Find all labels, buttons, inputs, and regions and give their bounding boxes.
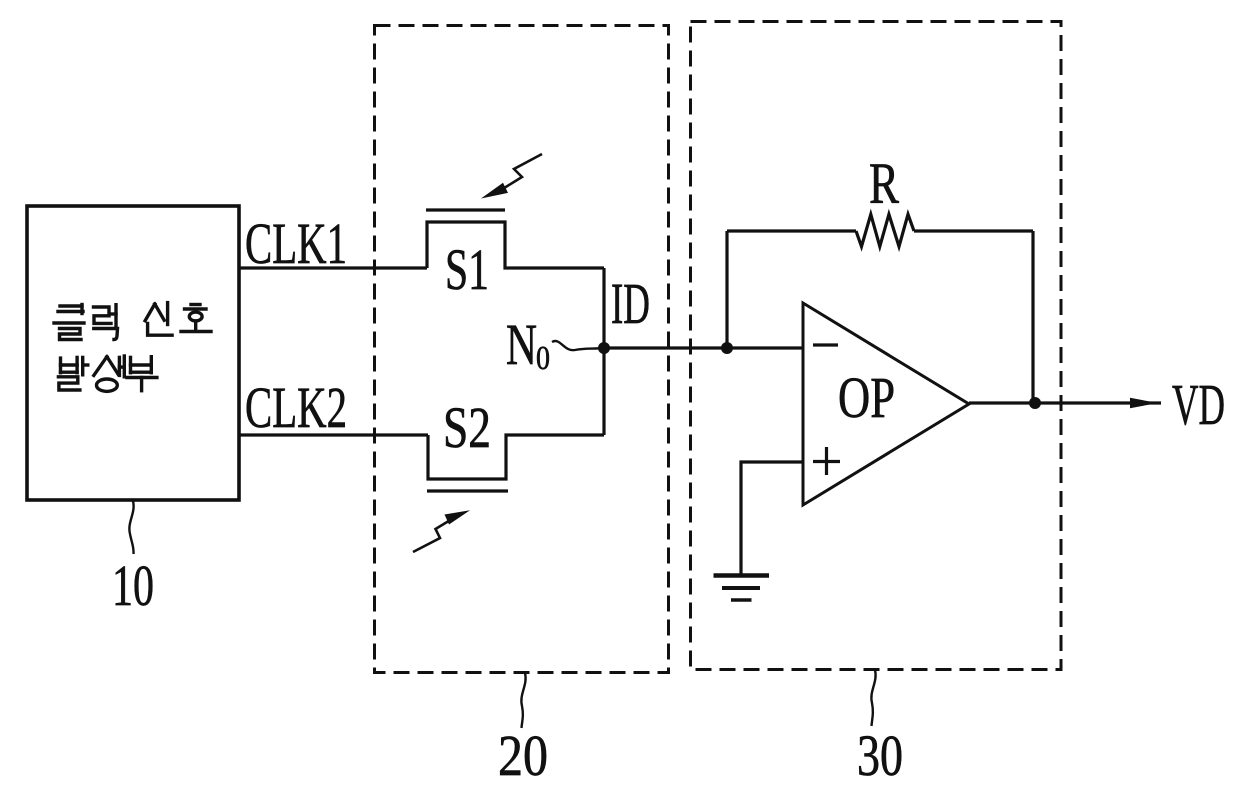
svg-text:S2: S2 [443, 395, 491, 460]
syllable 발 [59, 358, 62, 373]
svg-text:0: 0 [536, 340, 550, 377]
svg-text:R: R [869, 151, 899, 216]
leader squiggle 10 [129, 501, 133, 554]
label 클럭 신호 (line 1 of box text) [54, 303, 211, 340]
svg-text:N: N [506, 312, 537, 377]
syllable 부 [129, 357, 132, 372]
leader squiggle 30 [871, 670, 875, 726]
svg-text:30: 30 [857, 723, 903, 788]
svg-text:ID: ID [611, 271, 650, 336]
syllable 클 [60, 304, 82, 307]
svg-text:10: 10 [112, 553, 154, 618]
control arrow S1 (lightning bolt) [505, 154, 542, 188]
node N0 junction dot [598, 342, 610, 354]
syllable 신 [145, 304, 155, 321]
switch S1 gate bar [426, 208, 505, 211]
feedback tap node [721, 342, 733, 354]
minus sign inverting input [813, 343, 838, 346]
output arrowhead [1130, 398, 1158, 408]
leader squiggle N0 [552, 341, 602, 350]
wire CLK1 [239, 266, 427, 269]
svg-text:20: 20 [498, 723, 548, 788]
wire non-inverting input [741, 462, 803, 576]
svg-text:CLK1: CLK1 [245, 211, 347, 276]
switch S2 gate bar [427, 489, 508, 492]
wire node N0 to op-amp inverting input [604, 346, 803, 349]
svg-text:OP: OP [838, 365, 895, 430]
wire switch outputs junction vertical [602, 268, 605, 435]
svg-text:VD: VD [1172, 372, 1225, 437]
label 발생부 (line 2 of box text) [58, 356, 156, 391]
syllable 호 [191, 303, 200, 306]
feedback wire left vertical [725, 231, 728, 348]
switch S2 channel bump [428, 435, 604, 479]
control arrow S2 (lightning bolt) [413, 519, 452, 552]
syllable 럭 [94, 307, 112, 323]
op-amp OP triangle [803, 303, 969, 505]
ground symbol [714, 576, 770, 601]
wire CLK2 [239, 433, 428, 436]
feedback wire top horizontal [727, 229, 1033, 232]
syllable 생 [94, 357, 107, 376]
plus sign non-inverting input [813, 447, 840, 475]
clock generator box 10 [27, 206, 239, 500]
leader squiggle 20 [521, 673, 525, 728]
svg-text:CLK2: CLK2 [245, 375, 347, 440]
dashed box 20 (switching part) [375, 26, 669, 673]
output wire [969, 401, 1161, 404]
output node dot [1029, 397, 1041, 409]
svg-text:S1: S1 [445, 237, 489, 302]
switch S1 channel bump [427, 222, 604, 268]
resistor R zigzag [856, 214, 914, 246]
feedback wire right vertical [1031, 231, 1034, 403]
dashed box 30 (amplifying part) [691, 22, 1062, 670]
